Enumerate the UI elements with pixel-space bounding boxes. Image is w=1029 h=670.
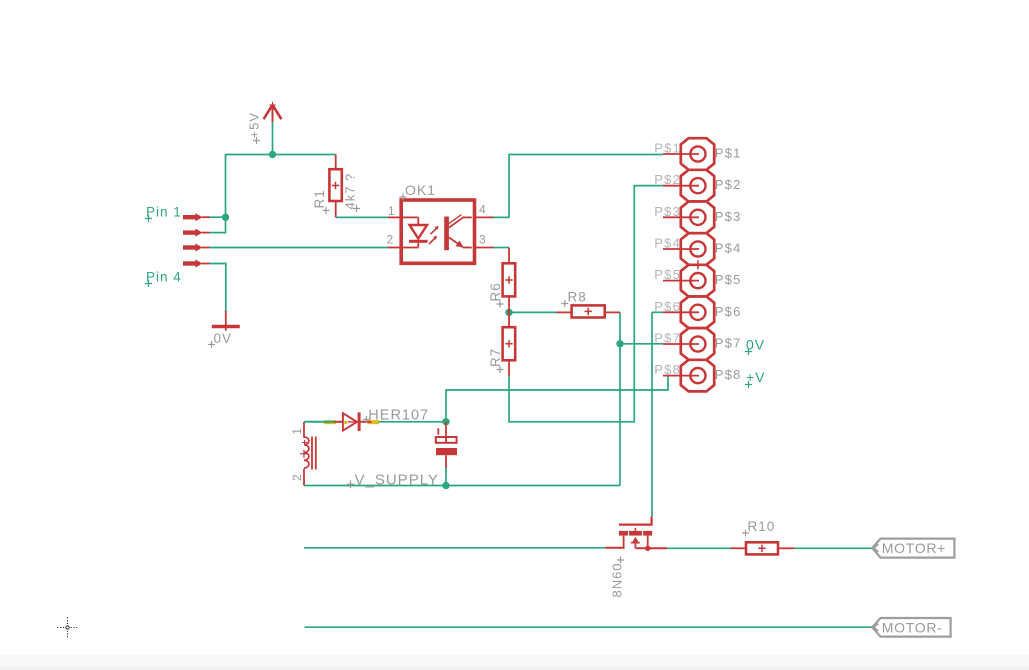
- svg-text:P$8: P$8: [715, 367, 742, 382]
- svg-text:P$8: P$8: [654, 362, 681, 377]
- svg-text:1: 1: [290, 428, 304, 435]
- svg-text:HER107: HER107: [368, 407, 429, 423]
- svg-text:P$1: P$1: [654, 141, 681, 156]
- svg-text:R7: R7: [488, 348, 503, 367]
- svg-text:P$6: P$6: [715, 304, 742, 319]
- svg-text:P$3: P$3: [654, 204, 681, 219]
- svg-text:MOTOR-: MOTOR-: [882, 619, 943, 635]
- svg-text:R10: R10: [748, 519, 776, 534]
- svg-text:4k7 ?: 4k7 ?: [343, 173, 358, 210]
- svg-text:Pin 4: Pin 4: [146, 270, 182, 285]
- svg-text:Pin 1: Pin 1: [146, 205, 182, 220]
- svg-text:2: 2: [387, 233, 394, 247]
- svg-text:P$5: P$5: [654, 267, 681, 282]
- svg-text:R8: R8: [568, 290, 587, 305]
- svg-text:4: 4: [479, 203, 486, 217]
- svg-text:R6: R6: [488, 282, 503, 301]
- svg-text:P$5: P$5: [715, 272, 742, 287]
- svg-text:P$2: P$2: [654, 172, 681, 187]
- svg-text:+5V: +5V: [247, 112, 262, 139]
- svg-text:OK1: OK1: [405, 182, 436, 198]
- svg-text:P$1: P$1: [715, 146, 742, 161]
- svg-text:3: 3: [479, 233, 486, 247]
- svg-text:P$4: P$4: [654, 236, 681, 251]
- svg-text:8N60: 8N60: [610, 562, 625, 597]
- svg-text:MOTOR+: MOTOR+: [882, 540, 946, 556]
- svg-text:2: 2: [290, 474, 304, 481]
- svg-text:1: 1: [388, 204, 395, 218]
- svg-text:P$6: P$6: [654, 299, 681, 314]
- svg-text:0V: 0V: [214, 331, 233, 346]
- svg-text:P$4: P$4: [715, 241, 742, 256]
- svg-text:R1: R1: [312, 189, 327, 208]
- svg-text:P$2: P$2: [715, 177, 742, 192]
- svg-text:V_SUPPLY: V_SUPPLY: [355, 472, 439, 489]
- svg-text:P$3: P$3: [715, 209, 742, 224]
- svg-text:P$7: P$7: [715, 336, 742, 351]
- svg-text:P$7: P$7: [654, 331, 681, 346]
